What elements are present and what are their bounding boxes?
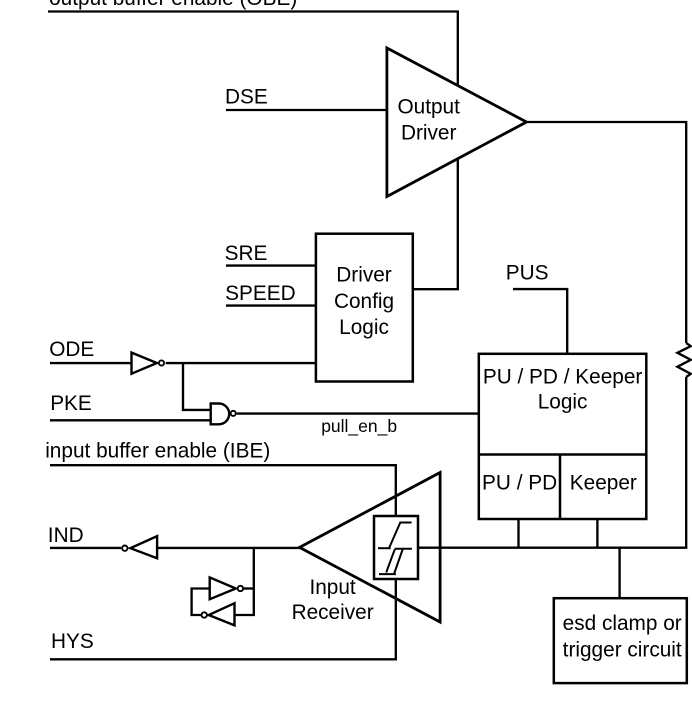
svg-text:PKE: PKE bbox=[50, 392, 92, 415]
svg-text:Output: Output bbox=[397, 96, 460, 119]
svg-text:Input: Input bbox=[309, 576, 355, 599]
svg-text:Logic: Logic bbox=[538, 390, 588, 413]
svg-text:PUS: PUS bbox=[506, 261, 549, 284]
svg-text:PU / PD / Keeper: PU / PD / Keeper bbox=[483, 365, 643, 388]
svg-text:input buffer enable (IBE): input buffer enable (IBE) bbox=[45, 440, 270, 463]
svg-text:Config: Config bbox=[334, 290, 394, 313]
svg-text:trigger circuit: trigger circuit bbox=[563, 638, 682, 661]
svg-text:esd clamp or: esd clamp or bbox=[563, 612, 682, 635]
svg-text:DSE: DSE bbox=[225, 85, 268, 108]
svg-text:pull_en_b: pull_en_b bbox=[321, 416, 397, 437]
svg-text:PU / PD: PU / PD bbox=[482, 471, 557, 494]
svg-text:Keeper: Keeper bbox=[570, 471, 637, 494]
svg-text:SRE: SRE bbox=[225, 242, 268, 265]
svg-text:IND: IND bbox=[48, 524, 84, 547]
svg-text:SPEED: SPEED bbox=[225, 282, 296, 305]
svg-text:Driver: Driver bbox=[336, 264, 392, 287]
svg-text:Driver: Driver bbox=[401, 122, 457, 145]
svg-text:Logic: Logic bbox=[339, 316, 389, 339]
svg-text:Receiver: Receiver bbox=[292, 601, 374, 624]
svg-text:output buffer enable (OBE): output buffer enable (OBE) bbox=[49, 0, 297, 10]
svg-text:ODE: ODE bbox=[49, 338, 94, 361]
svg-text:HYS: HYS bbox=[51, 630, 94, 653]
